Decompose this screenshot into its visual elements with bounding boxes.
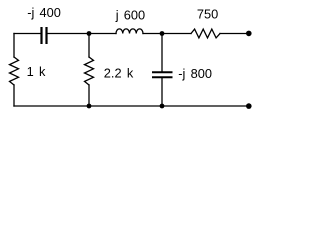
svg-text:-j 800: -j 800 (178, 66, 212, 81)
wire bottom rail (14, 105, 249, 107)
wire cap branch lower (161, 78, 163, 106)
wire cap branch upper (161, 34, 163, 72)
resistor R3 (750) (191, 29, 220, 38)
wire top-left horizontal segment (14, 33, 41, 35)
node A junction dot top (87, 31, 92, 36)
node B junction dot top (160, 31, 165, 36)
svg-text:j 600: j 600 (115, 8, 145, 23)
wire from node A to inductor (89, 33, 116, 35)
inductor L1 (j 600) (116, 29, 143, 34)
wire from R3 to top-right terminal (220, 33, 249, 35)
wire from inductor to node B (143, 33, 162, 35)
svg-text:750: 750 (197, 7, 218, 22)
svg-text:2.2 k: 2.2 k (104, 65, 134, 80)
wire from node B to resistor 750 (162, 33, 191, 35)
capacitor C2 (-j 800) plates (152, 72, 173, 77)
terminal dot bottom right (246, 103, 252, 109)
capacitor C1 (-j 400) plates (42, 27, 47, 44)
resistor R2 (2.2 k) (85, 57, 94, 85)
svg-text:-j 400: -j 400 (27, 5, 61, 20)
junction dot bottom right-middle (160, 104, 165, 109)
wire middle branch lower (88, 85, 90, 106)
wire from C1 to node A (48, 33, 89, 35)
junction dot bottom left-middle (87, 104, 92, 109)
terminal dot top right (246, 31, 252, 37)
svg-text:1 k: 1 k (27, 64, 46, 79)
wire left branch upper (13, 34, 15, 58)
resistor R1 (1 k) (10, 57, 19, 85)
wire middle branch upper (88, 34, 90, 58)
wire left branch lower (13, 85, 15, 106)
